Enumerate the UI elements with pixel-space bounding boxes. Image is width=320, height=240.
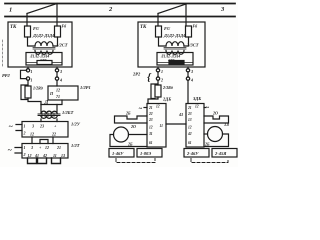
svg-text:23: 23 [39, 124, 44, 129]
label L1L2-L3L4 [29, 55, 49, 59]
jumper U-loop 2 [38, 158, 47, 164]
fuse FU1 [25, 26, 31, 37]
wire S2 left drop [157, 14, 159, 27]
label 3DR [39, 58, 47, 62]
svg-text:1/2БТ: 1/2БТ [62, 110, 74, 115]
wire tray with notch right [204, 116, 229, 123]
svg-text:4: 4 [190, 78, 193, 83]
svg-text:13: 13 [188, 118, 192, 122]
node 3 label [220, 6, 225, 13]
label 1/2BT [62, 110, 74, 115]
switch S1 diagonal [27, 4, 57, 14]
jumper U-loop 3 [52, 158, 61, 164]
transformer DT1 secondary [41, 117, 57, 119]
svg-text:Д1Д2-Д3Д4: Д1Д2-Д3Д4 [163, 33, 185, 38]
svg-text:1/2У: 1/2У [71, 122, 81, 127]
dashed border left [2, 40, 4, 66]
svg-text:12: 12 [195, 105, 199, 109]
label 2O right [212, 111, 218, 116]
transformer T2 core [164, 48, 186, 50]
svg-text:61: 61 [188, 141, 192, 145]
wire fuse4 to primary [184, 37, 189, 46]
terminal post 3 [55, 69, 58, 72]
wires AC to T [15, 148, 22, 154]
label 2B top [125, 111, 131, 116]
svg-text:~: ~ [9, 122, 14, 131]
label 2/3CT [186, 43, 199, 48]
label 2DB [162, 97, 171, 102]
bus line 1 [5, 3, 235, 5]
svg-text:71: 71 [56, 94, 60, 99]
svg-text:1: 1 [31, 78, 33, 83]
label 43 [178, 112, 183, 117]
transformer T1 core [33, 48, 55, 50]
wire U to T right [52, 137, 54, 144]
wires AC to U [16, 125, 22, 131]
transformer DT1 core [38, 114, 60, 116]
wire TK1 left drop [27, 67, 29, 69]
label winding taps TK2 [163, 33, 185, 38]
svg-text:~: ~ [8, 146, 13, 155]
box Ya1 relay cabinet [147, 104, 166, 148]
svg-text:12: 12 [156, 105, 160, 109]
terminal post 4 [55, 77, 58, 80]
fuse FU4 [186, 26, 192, 37]
wire S1 right drop [56, 4, 58, 27]
wire Rd2 to box Ya1 [148, 97, 158, 104]
switch S2 diagonal [158, 4, 186, 14]
svg-text:42: 42 [187, 132, 192, 136]
jumper loop PR2 [21, 70, 27, 78]
svg-text:3: 3 [190, 69, 193, 74]
svg-text:4: 4 [59, 78, 62, 83]
AC source Ya2 [206, 105, 210, 112]
svg-text:2/3Rд: 2/3Rд [162, 85, 173, 90]
svg-text:21: 21 [56, 145, 61, 150]
label 2P2 [132, 72, 141, 77]
wire M1 right [129, 134, 148, 136]
svg-text:1: 1 [31, 69, 33, 74]
svg-text:1-46У: 1-46У [112, 151, 124, 156]
svg-text:41: 41 [34, 153, 39, 158]
svg-text:13: 13 [61, 153, 65, 158]
wire M1 left loop [110, 135, 147, 147]
svg-text:2: 2 [23, 131, 26, 136]
label L1L2-L3L4 TK2 [160, 55, 180, 59]
svg-text:12: 12 [188, 126, 192, 130]
wire TK2 right drop [187, 67, 189, 69]
svg-text:2Б: 2Б [127, 142, 133, 147]
box U (1/2U) [22, 122, 68, 138]
resistor 3DR [26, 62, 62, 64]
svg-text:23: 23 [187, 112, 192, 116]
AC source U [9, 122, 14, 131]
svg-text:FU: FU [33, 26, 40, 31]
dashed bracket right [191, 159, 228, 163]
box TK1 terminal block [26, 53, 62, 66]
label 2DR [167, 58, 175, 62]
svg-text:1: 1 [161, 69, 163, 74]
wire post4 to box FP1 [56, 80, 58, 86]
svg-text:ЗДБ: ЗДБ [192, 96, 201, 101]
node 2 label [108, 6, 113, 13]
label 1/2T [71, 143, 80, 148]
label 3DB [192, 96, 201, 101]
svg-text:2: 2 [23, 152, 26, 157]
svg-text:1-80Э: 1-80Э [140, 151, 151, 156]
svg-text:3.0: 3.0 [223, 122, 229, 127]
svg-text:Д: Д [44, 100, 49, 106]
label 1/2U [71, 122, 81, 127]
svg-text:3: 3 [30, 145, 33, 150]
jumper loop around Rd1 [21, 85, 28, 100]
wire fuse2 to primary [53, 37, 58, 46]
motor M2 [208, 127, 223, 142]
wire tray with notch left [115, 116, 148, 123]
wire TK2 left drop [157, 67, 159, 69]
node 1 label [9, 7, 12, 14]
wire M2 left [204, 133, 208, 135]
dashed bracket left [116, 159, 155, 163]
svg-text:12: 12 [56, 88, 60, 93]
svg-text:Д1Д2-Д3Д4: Д1Д2-Д3Д4 [32, 33, 54, 38]
wire link Ya1-Ya2 [166, 123, 186, 125]
box TK2 [138, 22, 205, 67]
transformer DT1 primary [41, 105, 57, 114]
svg-text:1: 1 [24, 124, 26, 129]
wire between posts 7-8 [187, 72, 189, 78]
svg-text:3: 3 [59, 69, 62, 74]
box TK2 terminal block [157, 53, 193, 66]
svg-text:2О: 2О [212, 111, 218, 116]
svg-text:2Б: 2Б [204, 142, 210, 147]
svg-text:12: 12 [45, 145, 49, 150]
svg-text:РР2: РР2 [2, 73, 10, 78]
svg-text:61: 61 [149, 141, 153, 145]
svg-text:21: 21 [148, 106, 153, 110]
svg-text:FU: FU [164, 26, 171, 31]
svg-text:2ДБ: 2ДБ [162, 97, 171, 102]
wire post8 to box Ya2 [187, 80, 189, 104]
svg-text:2Р2: 2Р2 [132, 72, 141, 77]
AC source T [8, 146, 13, 155]
svg-text:22: 22 [51, 132, 56, 137]
svg-text:1/2Р1: 1/2Р1 [80, 85, 91, 90]
svg-text:~: ~ [139, 106, 143, 113]
wire between posts 5-6 [157, 72, 159, 78]
wire between posts [56, 72, 58, 78]
label 2B right [204, 142, 210, 147]
svg-text:2-46У: 2-46У [186, 151, 199, 156]
terminal post 2 [26, 77, 29, 80]
svg-text:TK: TK [140, 25, 147, 30]
label D [44, 100, 49, 106]
motor M1 [114, 127, 129, 142]
AC source Ya1 [139, 106, 143, 113]
label 2B bottom [127, 142, 133, 147]
transformer T1 secondary [35, 51, 53, 55]
box Ya2 relay cabinet [186, 104, 204, 148]
wire DT1 secondary to box U [41, 119, 57, 122]
svg-text:1/2Rд: 1/2Rд [33, 86, 43, 91]
svg-text:TK: TK [10, 25, 17, 30]
svg-text:2/3СТ: 2/3СТ [186, 43, 199, 48]
label plate 2-45Ya [212, 149, 237, 158]
svg-text:1: 1 [9, 7, 12, 14]
fuse FU3 [156, 26, 162, 37]
svg-text:2-45Я: 2-45Я [214, 151, 227, 156]
wire S1 left drop [26, 14, 28, 27]
wire Rd1 to transformer DT1 [28, 98, 41, 105]
wire AC to Ya2 [204, 107, 206, 109]
svg-text:2Б: 2Б [125, 111, 131, 116]
transformer T1 primary [35, 42, 53, 46]
svg-text:1/2СТ: 1/2СТ [56, 43, 68, 48]
label plate 1-80E [137, 149, 162, 158]
svg-text:1/2Т: 1/2Т [71, 143, 80, 148]
svg-text:11: 11 [160, 124, 164, 128]
svg-text:12: 12 [149, 126, 153, 130]
svg-text:11: 11 [53, 153, 57, 158]
box FP1 [48, 86, 78, 100]
label winding taps TK1 [32, 33, 54, 38]
label 1/2CT [56, 43, 68, 48]
svg-text:31: 31 [148, 132, 153, 136]
terminal post 7 [186, 69, 189, 72]
resistor 1/2Rd [25, 86, 31, 98]
terminal post 1 [26, 69, 29, 72]
svg-text:12: 12 [30, 132, 34, 137]
svg-text:43: 43 [178, 112, 183, 117]
transformer T2 secondary [166, 51, 184, 55]
label 3.0 [223, 122, 229, 127]
svg-text:42: 42 [42, 153, 47, 158]
svg-text:1: 1 [24, 145, 26, 150]
jumper notch on T top [40, 140, 48, 144]
label plate 2-46U [184, 149, 209, 158]
resistor 2DR [157, 62, 193, 64]
wire S2 right drop [185, 4, 187, 26]
svg-text:2О: 2О [130, 124, 136, 129]
fuse FU2 [55, 26, 61, 37]
label plate 1-46U [109, 149, 134, 158]
svg-text:3: 3 [31, 124, 34, 129]
svg-text:23: 23 [148, 118, 153, 122]
box T (1/2T) [22, 144, 68, 159]
wire post6 to resistor Rd2 [157, 80, 159, 85]
terminal post 6 [156, 77, 159, 80]
resistor 2/3Rd [155, 85, 161, 97]
box TK1 [8, 22, 72, 67]
transformer T2 primary [166, 42, 184, 46]
wire AC to Ya1 [144, 107, 147, 109]
svg-text:12: 12 [28, 153, 32, 158]
jumper loop around Rd2 [151, 84, 158, 99]
svg-text:2: 2 [160, 78, 163, 83]
wire fuse3 to primary [159, 37, 167, 46]
label 2O [130, 124, 136, 129]
wire U to T left [31, 137, 33, 144]
svg-text:22: 22 [148, 112, 153, 116]
bus line 2 [5, 16, 235, 18]
wire FP1 to DT1 [41, 100, 62, 105]
svg-text:21: 21 [187, 106, 192, 110]
terminal post 5 [156, 69, 159, 72]
wire TK1 right drop [56, 67, 58, 69]
label 1/2F1 [80, 85, 91, 90]
jumper U-loop 1 [28, 158, 37, 164]
label PR2 [2, 73, 10, 78]
wire fuse1 to primary [28, 37, 36, 46]
wire M2 right loop [204, 134, 229, 147]
wire post2 to resistor Rd1 [27, 80, 29, 86]
terminal post 8 [186, 77, 189, 80]
